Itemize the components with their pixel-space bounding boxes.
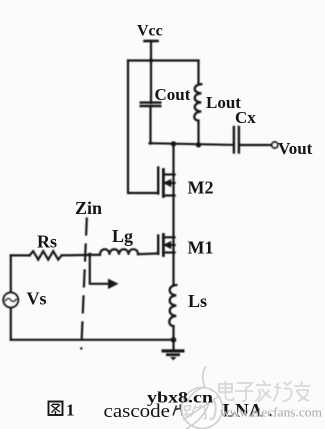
wire left branch from rail down to M2 gate bbox=[128, 61, 158, 194]
node Vcc rail bbox=[128, 59, 199, 61]
svg-text:Vcc: Vcc bbox=[137, 23, 163, 40]
hanzi jie-gou scribbles (partially obscured) bbox=[173, 400, 216, 420]
svg-text:ybx8.cn: ybx8.cn bbox=[147, 390, 213, 407]
terminal Vout bbox=[272, 142, 278, 148]
Vcc power terminal bbox=[145, 41, 158, 103]
svg-text:Rs: Rs bbox=[37, 232, 57, 252]
hanzi shao bbox=[273, 382, 292, 402]
capacitor Cx bbox=[234, 127, 272, 153]
ground bbox=[162, 349, 185, 360]
caption 图 1 cascode 结构 LNA bbox=[49, 400, 273, 423]
wire Lg to M1 gate bbox=[138, 252, 158, 255]
wire source bottom rail bbox=[11, 339, 174, 341]
node Zin reference dashed line bbox=[81, 219, 87, 349]
wire input left vertical bbox=[10, 256, 12, 293]
inductor Ls bbox=[169, 285, 176, 349]
wire input top bbox=[11, 254, 30, 256]
junction dots bbox=[88, 58, 201, 342]
wire tank bottom rail bbox=[150, 143, 234, 145]
source Vs bbox=[3, 293, 18, 308]
svg-text:Lg: Lg bbox=[112, 226, 133, 246]
svg-text:Cout: Cout bbox=[155, 85, 191, 104]
watermark big hanzi dian-zi-fa-shao-you bbox=[219, 381, 310, 402]
svg-text:1: 1 bbox=[66, 401, 75, 420]
hanzi zi bbox=[235, 383, 253, 401]
resistor Rs bbox=[30, 251, 62, 259]
svg-text:Vout: Vout bbox=[278, 139, 313, 158]
wire Rs to Lg bbox=[62, 254, 100, 257]
svg-text:M2: M2 bbox=[188, 178, 214, 198]
watermark www.elecfans.com bbox=[220, 406, 323, 421]
transistor M1 bbox=[158, 235, 174, 256]
hanzi TU (figure) drawn bbox=[49, 402, 63, 416]
hanzi dian bbox=[219, 381, 234, 400]
hanzi you bbox=[294, 381, 310, 401]
svg-text:Cx: Cx bbox=[235, 108, 256, 127]
svg-text:M1: M1 bbox=[188, 238, 214, 258]
inductor Lout bbox=[194, 61, 201, 146]
svg-text:Ls: Ls bbox=[188, 291, 207, 311]
wire drain node to M2 bbox=[172, 144, 174, 285]
svg-text:Vs: Vs bbox=[27, 289, 47, 309]
Zin direction arrow bbox=[90, 255, 118, 289]
capacitor Cout bbox=[141, 103, 161, 144]
svg-text:www.elecfans.com: www.elecfans.com bbox=[220, 406, 322, 420]
hanzi fa bbox=[255, 381, 272, 402]
transistor M2 bbox=[158, 168, 174, 197]
svg-text:Zin: Zin bbox=[75, 198, 102, 218]
inductor Lg bbox=[100, 249, 138, 255]
watermark elecfans logo circle bbox=[182, 366, 223, 429]
